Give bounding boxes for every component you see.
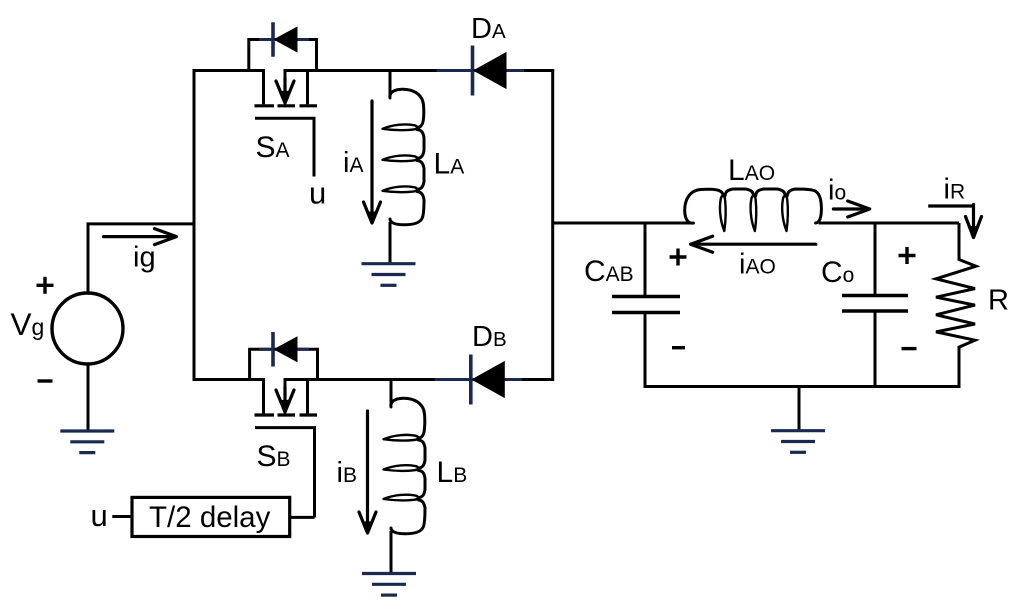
ground below Vg (60, 431, 114, 453)
current arrow iA (364, 101, 381, 223)
wire right bus of bridge (551, 69, 554, 381)
inductor LA (383, 89, 425, 225)
capacitor CAB top lead (644, 222, 647, 297)
label LA (434, 148, 465, 181)
ground below LA (362, 264, 416, 286)
wire bottom rail right segment (285, 378, 553, 381)
wire left bus of bridge (193, 69, 196, 381)
plus sign at Co (899, 247, 916, 264)
wire bottom rail of output network (644, 385, 961, 388)
wire input from Vg to left bus (87, 224, 195, 293)
block T/2 delay (132, 497, 290, 536)
capacitor CAB plates (612, 297, 680, 313)
svg-text:u: u (309, 176, 326, 211)
label io (828, 175, 846, 207)
capacitor Co bottom lead (874, 311, 877, 388)
ground below LB (362, 574, 416, 596)
source Vg (52, 293, 123, 364)
svg-text:R: R (988, 285, 1009, 317)
body diode of SB (259, 332, 309, 367)
label ig (133, 242, 156, 274)
minus sign of Vg (38, 379, 53, 382)
label SA (256, 131, 290, 164)
wire u to delay block (112, 515, 132, 518)
ground of output network (771, 431, 825, 453)
inductor LB (384, 398, 426, 534)
diode DB (435, 355, 523, 405)
plus sign at CAB (670, 249, 687, 266)
transistor SA channel arrow (276, 69, 294, 103)
diode DA (437, 46, 525, 96)
current arrow io (833, 201, 869, 217)
wire LA bottom stub (389, 222, 392, 263)
label DA (471, 13, 506, 45)
label u input of delay (91, 498, 108, 533)
label DB (472, 321, 507, 353)
transistor SB gate (255, 428, 315, 518)
label T/2 delay (149, 501, 271, 534)
wire body-diode loop of SB (250, 349, 318, 379)
wire delay block to SB gate (290, 516, 315, 519)
wire bottom rail left segment (194, 378, 264, 381)
wire LA top stub (389, 71, 392, 97)
label LAO (728, 154, 775, 187)
current arrow ig (104, 229, 177, 245)
label iAO (739, 249, 776, 281)
label iB (337, 457, 357, 489)
label iR (944, 173, 966, 205)
label LB (437, 456, 468, 489)
body diode of SA (259, 22, 309, 57)
inductor LAO (685, 189, 822, 231)
transistor SB plates (255, 413, 318, 416)
current arrow iAO (691, 236, 816, 252)
resistor R (936, 223, 976, 387)
plus sign of Vg (37, 277, 54, 294)
wire output rail from bridge to LAO (553, 222, 692, 225)
wire R bottom lead (958, 347, 961, 386)
wire top rail right segment (285, 69, 554, 72)
wire top rail left segment (194, 69, 264, 72)
minus sign at Co (902, 347, 917, 350)
transistor SB source lead (306, 378, 309, 414)
label Vg (11, 306, 45, 342)
wire LB bottom stub (390, 531, 393, 572)
transistor SB drain lead (262, 378, 265, 414)
current arrow iB (359, 411, 376, 533)
minus sign at CAB (672, 346, 685, 349)
svg-text:ig: ig (133, 242, 156, 274)
transistor SB channel arrow (276, 378, 294, 412)
transistor SA gate (255, 118, 314, 176)
svg-text:u: u (91, 498, 108, 533)
label iA (343, 147, 363, 179)
label R (988, 285, 1009, 317)
wire ground stub of output network (798, 387, 801, 430)
capacitor Co top lead (874, 222, 877, 296)
label SB (257, 440, 291, 473)
svg-text:T/2 delay: T/2 delay (149, 501, 271, 534)
wire body-diode loop of SA (249, 40, 317, 71)
transistor SA plates (255, 104, 318, 107)
capacitor Co plates (842, 296, 908, 312)
label CAB (584, 255, 634, 288)
transistor SA source lead (306, 69, 309, 104)
transistor SA drain lead (262, 69, 265, 104)
capacitor CAB bottom lead (644, 313, 647, 389)
wire output rail LAO to load (819, 222, 959, 225)
label Co (821, 256, 854, 289)
current arrow iR (928, 205, 981, 238)
wire Vg bottom lead (87, 364, 90, 430)
wire LB top stub (390, 380, 393, 406)
label u gate of SA (309, 176, 326, 211)
